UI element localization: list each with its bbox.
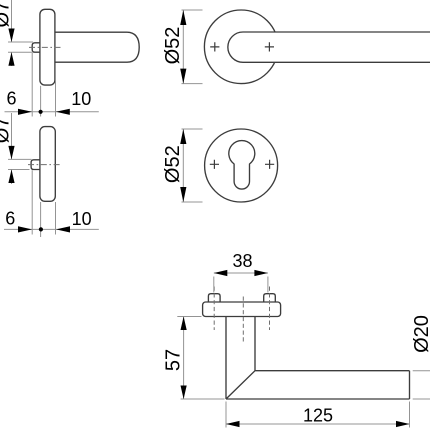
svg-text:125: 125 xyxy=(303,405,333,425)
svg-text:Ø7: Ø7 xyxy=(0,117,13,144)
svg-text:10: 10 xyxy=(72,209,92,229)
svg-text:10: 10 xyxy=(71,89,91,109)
svg-text:Ø52: Ø52 xyxy=(162,145,184,183)
svg-text:Ø20: Ø20 xyxy=(411,315,430,353)
svg-text:57: 57 xyxy=(162,349,184,371)
svg-text:Ø52: Ø52 xyxy=(162,27,184,65)
svg-text:Ø7: Ø7 xyxy=(0,1,13,28)
svg-text:6: 6 xyxy=(5,209,15,229)
svg-text:6: 6 xyxy=(6,88,16,108)
svg-text:38: 38 xyxy=(232,251,252,271)
